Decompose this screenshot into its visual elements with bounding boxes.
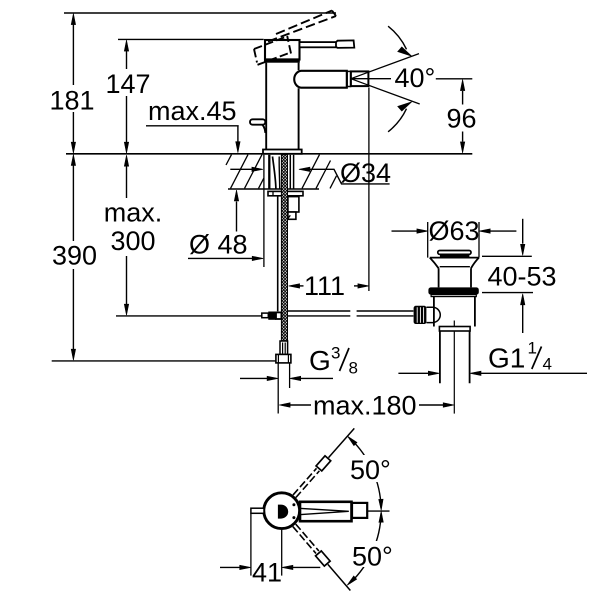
plan dashed lever up 50 [292,426,358,499]
svg-text:96: 96 [446,104,476,134]
svg-text:40-53: 40-53 [487,262,556,292]
pop-up knob on body [250,119,265,133]
svg-text:max.: max. [104,198,163,228]
plan dashed lever down 50 [291,523,353,593]
plan screw dots [292,503,295,506]
extension lines G3/8 [277,363,279,414]
svg-text:50°: 50° [352,542,393,572]
mixer head dashed (tilted position) [254,36,291,65]
wire mounting deck surface line [66,153,472,155]
WASTE ASSEMBLY [414,251,479,384]
lever blade tip [336,40,354,48]
svg-text:Ø 48: Ø 48 [189,230,248,260]
extension line flange edge (D48) [263,155,265,267]
body [434,297,475,327]
G 1 1/4 label [488,339,552,374]
lever bar [300,42,337,47]
dimension 41 [220,514,320,588]
hose nut G3/8 [276,354,291,363]
knurled knob [414,306,427,324]
svg-text:111: 111 [304,271,345,301]
pop-up rod vertical [277,196,279,311]
dimension 40-53 [482,219,557,333]
svg-text:40°: 40° [395,63,436,93]
arrow up to deck bottom (deck thickness) [234,190,238,232]
mixer head [265,40,300,60]
joint band [439,327,470,332]
aerator [351,71,369,86]
wire rod level reference line [116,315,262,317]
svg-text:181: 181 [49,86,94,116]
dimension 147 [105,40,150,153]
plan body circle [264,493,300,529]
svg-text:Ø34: Ø34 [340,158,391,188]
mounting stud [288,197,299,212]
svg-text:G1: G1 [488,343,525,374]
flexible supply hose braided [281,155,287,342]
plug cap [438,251,471,255]
rod clamp [262,312,282,320]
mixer lever dashed (raised position) [268,11,336,42]
angle rays from aerator [351,54,420,104]
svg-text:1: 1 [528,339,537,358]
aerator cross rays [351,72,369,85]
svg-text:4: 4 [543,355,552,374]
svg-text:max.45: max.45 [148,96,237,126]
spout neck [347,71,350,86]
svg-text:8: 8 [349,359,358,378]
svg-text:G: G [309,345,331,376]
dimension max.180 [279,391,454,421]
head bottom band [264,58,300,62]
dimension D34 with bent leader [230,158,391,188]
plan cartridge D [278,505,288,519]
svg-text:41: 41 [252,558,282,588]
deck hatching right [302,155,337,189]
spout [294,71,347,88]
locknut under deck [268,191,303,195]
horizontal pop-up rod to waste [288,311,351,316]
dimension label D48 with leader [188,230,263,261]
wire bottom reference line 390 [52,360,277,362]
swivel arc arrows 40 [388,26,412,132]
svg-text:300: 300 [110,226,155,256]
dimension 181 [49,14,94,154]
dimension 390 [52,155,97,361]
svg-text:50°: 50° [350,455,391,485]
50 degree arc upper [348,436,384,510]
bell top [430,257,479,259]
svg-text:max.180: max.180 [313,391,417,421]
waste centre extension line [453,321,455,414]
hose end fitting [280,341,288,354]
body column [265,63,267,150]
dimension 96 [436,79,477,153]
svg-text:390: 390 [52,241,97,271]
dimension max.45 with leader arrow [146,96,240,153]
svg-text:3: 3 [331,344,340,363]
G 3/8 label [309,344,358,378]
svg-text:Ø63: Ø63 [429,216,480,246]
base flange [263,150,302,154]
dimension max.300 [104,155,163,315]
dimension 111 [289,271,369,301]
plan centre line [367,510,389,512]
wire deck bottom line [228,188,319,190]
dimension G3/8 arrows [240,376,333,380]
wire top reference line 181 [64,12,336,14]
shank through deck [269,155,293,189]
neck [439,268,471,287]
seal flange [428,287,478,294]
extension line spout tip (111) [368,88,370,292]
plan left stub [251,508,264,513]
wire reference line 147 [118,38,264,40]
dimension G1 1/4 arrows [398,371,587,375]
plan grip [352,503,367,518]
deck hatching left [226,155,264,189]
tailpipe [440,331,470,383]
plan lever bar [300,502,352,521]
50 degree arc lower [347,511,383,585]
dimension D63 [392,216,517,258]
svg-text:147: 147 [105,69,150,99]
port box [426,307,434,322]
